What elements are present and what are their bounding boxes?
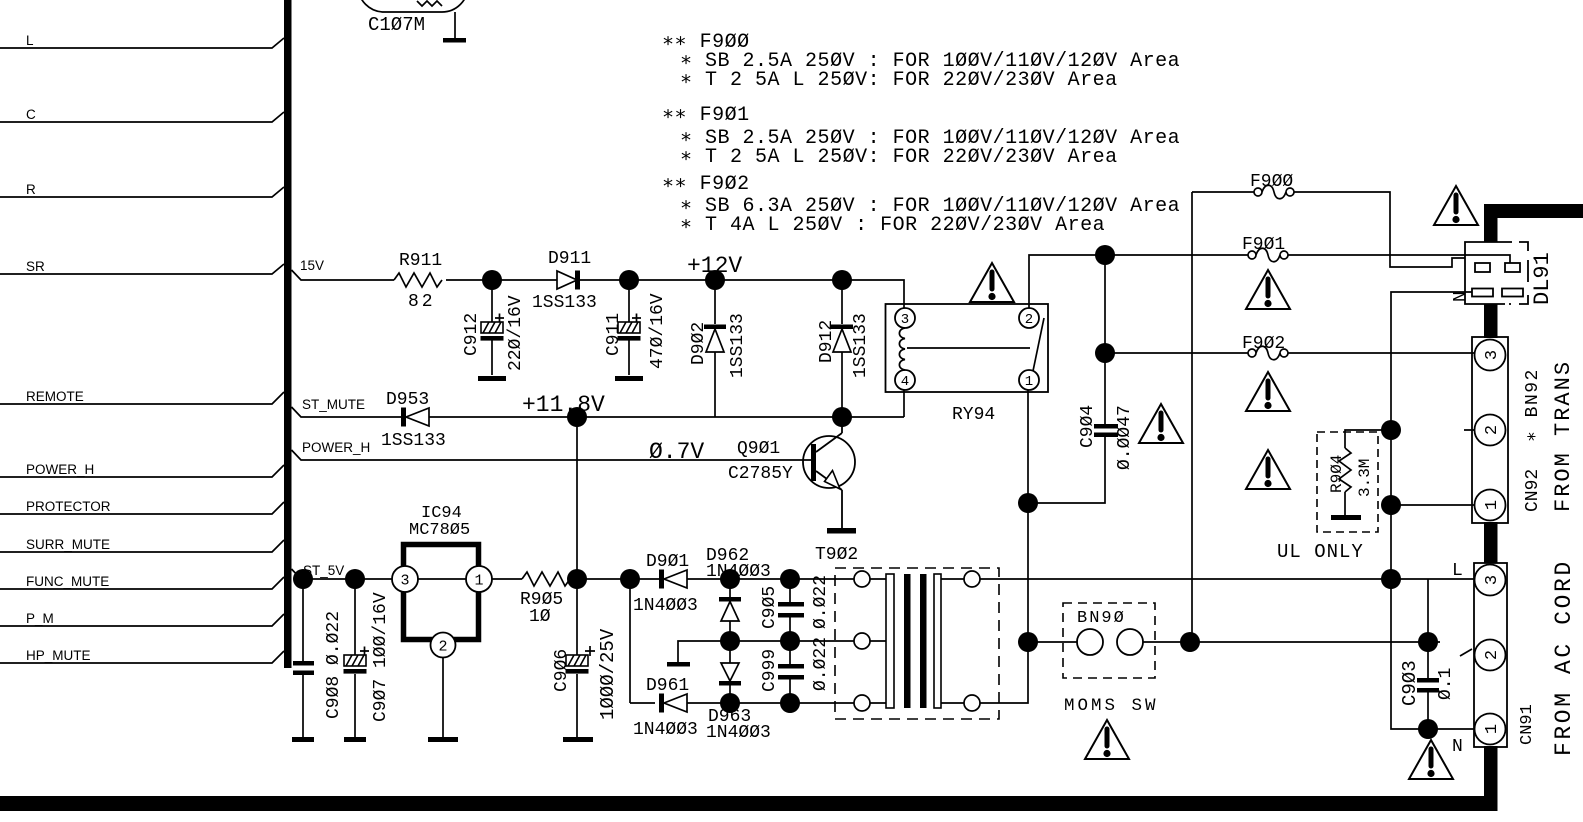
svg-text:D9Ø2: D9Ø2 bbox=[689, 322, 709, 365]
svg-text:∗ T 2 5A L 25ØV: FOR 22ØV/23ØV: ∗ T 2 5A L 25ØV: FOR 22ØV/23ØV Area bbox=[680, 146, 1118, 169]
svg-text:1SS133: 1SS133 bbox=[728, 313, 748, 378]
svg-text:3: 3 bbox=[901, 312, 909, 328]
svg-text:Ø.7V: Ø.7V bbox=[649, 439, 704, 465]
svg-text:47Ø/16V: 47Ø/16V bbox=[648, 293, 668, 369]
svg-text:MC78Ø5: MC78Ø5 bbox=[409, 521, 470, 540]
svg-text:+12V: +12V bbox=[687, 253, 742, 279]
svg-text:1N4ØØ3: 1N4ØØ3 bbox=[706, 562, 771, 582]
svg-text:DL91: DL91 bbox=[1530, 252, 1555, 305]
svg-text:D9Ø1: D9Ø1 bbox=[646, 552, 689, 572]
svg-text:C9Ø6: C9Ø6 bbox=[552, 649, 572, 692]
svg-text:PROTECTOR: PROTECTOR bbox=[26, 499, 111, 514]
svg-text:4: 4 bbox=[901, 374, 909, 390]
svg-text:REMOTE: REMOTE bbox=[26, 389, 84, 404]
svg-text:C: C bbox=[26, 107, 36, 122]
svg-text:∗∗ F9Ø2: ∗∗ F9Ø2 bbox=[662, 173, 750, 196]
svg-text:C911: C911 bbox=[604, 313, 624, 356]
svg-text:2: 2 bbox=[1483, 425, 1502, 435]
svg-text:R911: R911 bbox=[399, 251, 442, 271]
svg-text:1: 1 bbox=[474, 573, 483, 590]
svg-text:L: L bbox=[26, 33, 34, 48]
svg-text:1N4ØØ3: 1N4ØØ3 bbox=[706, 723, 771, 743]
svg-text:C9Ø5: C9Ø5 bbox=[760, 586, 780, 629]
svg-text:MOMS SW: MOMS SW bbox=[1064, 696, 1159, 716]
svg-text:D911: D911 bbox=[548, 249, 591, 269]
svg-text:R: R bbox=[26, 182, 36, 197]
svg-text:2: 2 bbox=[438, 639, 447, 656]
svg-text:Ø.Ø22: Ø.Ø22 bbox=[811, 575, 831, 629]
svg-text:P_M: P_M bbox=[26, 611, 54, 626]
svg-text:3.3M: 3.3M bbox=[1356, 459, 1374, 497]
svg-text:FROM AC CORD: FROM AC CORD bbox=[1551, 559, 1577, 756]
svg-text:1: 1 bbox=[1483, 500, 1502, 510]
svg-text:Ø.Ø22: Ø.Ø22 bbox=[811, 637, 831, 691]
svg-text:SR: SR bbox=[26, 259, 45, 274]
svg-text:1SS133: 1SS133 bbox=[381, 431, 446, 451]
svg-text:F9ØØ: F9ØØ bbox=[1250, 172, 1293, 192]
svg-text:2: 2 bbox=[1025, 312, 1033, 328]
svg-text:C9Ø3: C9Ø3 bbox=[1399, 660, 1421, 706]
svg-text:T9Ø2: T9Ø2 bbox=[815, 545, 858, 565]
svg-text:∗ T 4A L 25ØV : FOR 22ØV/23ØV: ∗ T 4A L 25ØV : FOR 22ØV/23ØV Area bbox=[680, 214, 1105, 237]
svg-text:1SS133: 1SS133 bbox=[532, 293, 597, 313]
svg-text:+11.8V: +11.8V bbox=[522, 392, 605, 418]
svg-text:CN92: CN92 bbox=[1523, 469, 1543, 512]
svg-text:82: 82 bbox=[408, 292, 436, 312]
svg-text:D961: D961 bbox=[646, 676, 689, 696]
svg-text:SURR_MUTE: SURR_MUTE bbox=[26, 537, 110, 552]
svg-text:∗∗ F9Ø1: ∗∗ F9Ø1 bbox=[662, 104, 750, 127]
svg-text:Ø.ØØ47: Ø.ØØ47 bbox=[1115, 405, 1135, 470]
svg-text:2: 2 bbox=[1483, 650, 1502, 660]
svg-text:3: 3 bbox=[1483, 575, 1502, 585]
svg-text:C912: C912 bbox=[462, 313, 482, 356]
svg-text:FUNC_MUTE: FUNC_MUTE bbox=[26, 574, 109, 589]
svg-text:C9Ø8 Ø.Ø22: C9Ø8 Ø.Ø22 bbox=[324, 611, 344, 719]
svg-text:D912: D912 bbox=[817, 320, 837, 363]
svg-text:F9Ø2: F9Ø2 bbox=[1242, 334, 1285, 354]
svg-text:C999: C999 bbox=[760, 649, 780, 692]
svg-text:C1Ø7M: C1Ø7M bbox=[368, 14, 425, 36]
svg-text:N: N bbox=[1451, 291, 1471, 302]
svg-text:FROM TRANS: FROM TRANS bbox=[1551, 360, 1576, 512]
svg-text:Q9Ø1: Q9Ø1 bbox=[737, 439, 780, 459]
svg-text:∗ BN92: ∗ BN92 bbox=[1523, 368, 1543, 442]
svg-text:3: 3 bbox=[1483, 350, 1502, 360]
svg-text:1N4ØØ3: 1N4ØØ3 bbox=[633, 596, 698, 616]
svg-text:D953: D953 bbox=[386, 390, 429, 410]
svg-text:ST_MUTE: ST_MUTE bbox=[302, 397, 365, 412]
svg-text:F9Ø1: F9Ø1 bbox=[1242, 235, 1285, 255]
svg-text:BN9Ø: BN9Ø bbox=[1077, 609, 1126, 628]
svg-text:Ø.1: Ø.1 bbox=[1436, 668, 1456, 700]
svg-text:POWER_H: POWER_H bbox=[26, 462, 94, 477]
svg-text:1Ø: 1Ø bbox=[529, 607, 551, 627]
svg-text:CN91: CN91 bbox=[1518, 704, 1537, 745]
svg-text:N: N bbox=[1452, 737, 1463, 757]
svg-text:C9Ø7 1ØØ/16V: C9Ø7 1ØØ/16V bbox=[371, 592, 391, 722]
svg-text:POWER_H: POWER_H bbox=[302, 440, 370, 455]
svg-text:3: 3 bbox=[400, 573, 409, 590]
svg-text:22Ø/16V: 22Ø/16V bbox=[506, 295, 526, 371]
svg-text:C2785Y: C2785Y bbox=[728, 464, 793, 484]
svg-text:ST_5V: ST_5V bbox=[303, 563, 344, 578]
svg-text:∗ T 2 5A L 25ØV: FOR 22ØV/23ØV: ∗ T 2 5A L 25ØV: FOR 22ØV/23ØV Area bbox=[680, 69, 1118, 92]
svg-text:C9Ø4: C9Ø4 bbox=[1078, 405, 1098, 448]
svg-text:HP_MUTE: HP_MUTE bbox=[26, 648, 91, 663]
svg-text:R9Ø4: R9Ø4 bbox=[1328, 455, 1346, 493]
svg-text:1: 1 bbox=[1025, 374, 1033, 390]
svg-text:15V: 15V bbox=[300, 258, 324, 273]
svg-text:L: L bbox=[1452, 561, 1463, 581]
svg-text:1: 1 bbox=[1483, 724, 1502, 734]
svg-text:UL ONLY: UL ONLY bbox=[1277, 541, 1364, 563]
svg-text:RY94: RY94 bbox=[952, 405, 995, 425]
svg-text:1ØØØ/25V: 1ØØØ/25V bbox=[597, 628, 619, 720]
svg-text:1SS133: 1SS133 bbox=[851, 313, 871, 378]
svg-text:1N4ØØ3: 1N4ØØ3 bbox=[633, 720, 698, 740]
